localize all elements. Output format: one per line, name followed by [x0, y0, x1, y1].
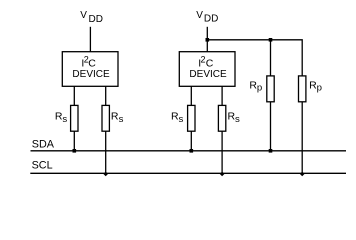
svg-text:p: p: [257, 83, 262, 94]
svg-text:DEVICE: DEVICE: [189, 69, 227, 80]
svg-text:SCL: SCL: [32, 159, 53, 171]
svg-text:V: V: [80, 10, 87, 21]
svg-text:s: s: [62, 114, 67, 125]
svg-text:SDA: SDA: [32, 138, 55, 150]
svg-text:s: s: [179, 114, 184, 125]
svg-text:C: C: [88, 58, 96, 70]
svg-text:V: V: [196, 10, 203, 21]
svg-text:s: s: [235, 114, 240, 125]
svg-text:C: C: [206, 58, 214, 70]
svg-text:s: s: [119, 114, 124, 125]
svg-text:DD: DD: [204, 14, 218, 25]
svg-text:p: p: [317, 83, 322, 94]
svg-text:DD: DD: [89, 14, 103, 25]
svg-text:DEVICE: DEVICE: [72, 69, 110, 80]
